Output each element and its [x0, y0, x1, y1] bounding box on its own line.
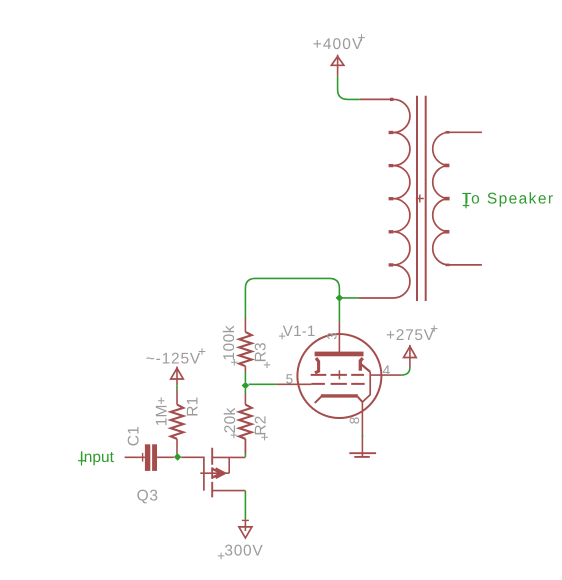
- svg-text:1M: 1M: [153, 404, 170, 426]
- svg-text:8: 8: [347, 417, 362, 425]
- svg-text:4: 4: [383, 362, 391, 378]
- svg-text:R3: R3: [252, 342, 269, 362]
- svg-text:20k: 20k: [222, 408, 239, 434]
- svg-text:100k: 100k: [221, 325, 238, 361]
- svg-text:5: 5: [286, 371, 294, 386]
- svg-text:Input: Input: [80, 449, 115, 466]
- svg-text:+275V: +275V: [386, 327, 435, 344]
- svg-text:To Speaker: To Speaker: [462, 191, 554, 208]
- svg-text:C1: C1: [126, 426, 143, 446]
- svg-text:+400V: +400V: [313, 36, 364, 53]
- svg-text:V1-1: V1-1: [283, 323, 316, 340]
- svg-text:300V: 300V: [224, 542, 263, 559]
- svg-text:R1: R1: [184, 397, 201, 417]
- svg-text:3: 3: [324, 332, 339, 340]
- svg-text:Q3: Q3: [137, 488, 159, 505]
- svg-text:~-125V: ~-125V: [146, 351, 201, 368]
- svg-text:R2: R2: [253, 415, 270, 435]
